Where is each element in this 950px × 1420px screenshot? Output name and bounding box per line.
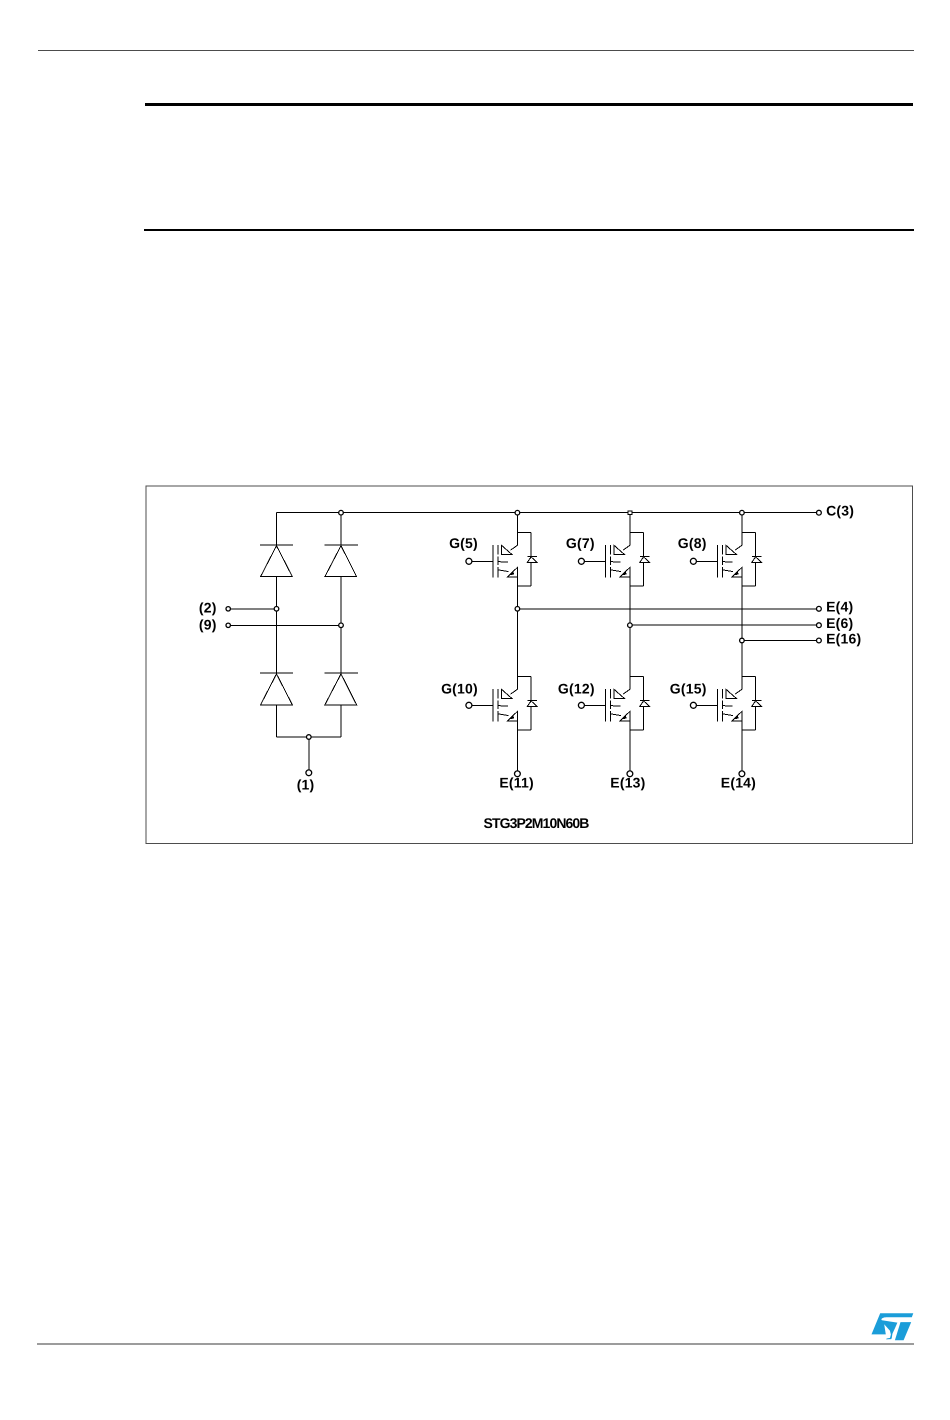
diode D1 (260, 545, 293, 577)
svg-text:E(6): E(6) (826, 615, 853, 631)
pin (9) terminal (226, 623, 230, 627)
wire: E(6) rail (630, 624, 817, 626)
svg-text:(2): (2) (199, 600, 217, 616)
wire: terminal 1 stub (308, 737, 310, 770)
node: rail junction at bridge (339, 510, 344, 515)
ST Microelectronics logo (871, 1313, 914, 1341)
IGBT Q5 with free-wheel diode (lower, G(12)) (578, 676, 649, 730)
wire: top rail C(3) (277, 512, 817, 514)
wire: column 1 emitter lead (516, 721, 518, 771)
footer rule (37, 1343, 914, 1345)
wire: column 1 mid vertical (516, 577, 518, 689)
node: bridge bottom junction (307, 735, 312, 740)
diode D3 (260, 673, 293, 705)
svg-text:E(14): E(14) (721, 775, 756, 791)
svg-text:E(4): E(4) (826, 599, 853, 615)
svg-text:E(11): E(11) (499, 775, 533, 791)
wire: bridge right branch (340, 513, 342, 737)
IGBT Q2 with free-wheel diode (upper, G(7)) (578, 532, 649, 586)
node: rail junction col1 (515, 510, 520, 515)
wire: column 2 emitter lead (629, 721, 631, 771)
svg-text:G(15): G(15) (670, 680, 707, 696)
pin E(11) terminal (515, 771, 521, 777)
wire: column 3 mid vertical (741, 577, 743, 689)
wire: collector drop column 3 (741, 513, 743, 546)
wire: column 3 emitter lead (741, 721, 743, 771)
svg-text:C(3): C(3) (826, 503, 854, 519)
svg-text:G(7): G(7) (566, 535, 595, 551)
node: rail junction col2 (628, 511, 632, 515)
svg-text:G(5): G(5) (449, 535, 478, 551)
pin (1) terminal (306, 770, 312, 776)
pin E(13) terminal (627, 771, 633, 777)
pin E(14) terminal (739, 771, 745, 777)
title bar top rule (145, 103, 913, 105)
node: E(4) junction (515, 607, 520, 612)
wire: E(16) rail (742, 640, 817, 642)
diode D2 (325, 545, 358, 577)
svg-text:E(13): E(13) (610, 775, 645, 791)
schematic figure: internal diagram (0, 0, 950, 900)
wire: bridge bottom join (277, 736, 342, 738)
diode D4 (325, 673, 358, 705)
svg-text:G(8): G(8) (678, 535, 707, 551)
wire: terminal 2 lead (231, 608, 277, 610)
node: rail junction col3 (740, 510, 745, 515)
pin E(16) terminal (817, 638, 822, 643)
pin C(3) terminal (817, 510, 822, 515)
wire: collector drop column 2 (629, 513, 631, 546)
node: E(16) junction (740, 638, 745, 643)
IGBT Q6 with free-wheel diode (lower, G(15)) (690, 676, 761, 730)
title bar bottom rule (144, 229, 914, 231)
pin (2) terminal (226, 607, 230, 611)
svg-text:(9): (9) (199, 616, 217, 632)
svg-text:STG3P2M10N60B: STG3P2M10N60B (484, 815, 590, 831)
wire: column 2 mid vertical (629, 577, 631, 689)
wire: collector drop column 1 (516, 513, 518, 546)
figure frame (146, 486, 912, 843)
svg-text:G(12): G(12) (558, 680, 595, 696)
wire: terminal 9 lead (231, 624, 342, 626)
wire: E(4) rail (517, 608, 816, 610)
wire: bridge left branch (276, 513, 278, 737)
node: terminal 9 junction (339, 623, 344, 628)
pin E(6) terminal (817, 623, 822, 628)
node: terminal 2 junction (274, 607, 279, 612)
IGBT Q3 with free-wheel diode (upper, G(8)) (690, 532, 761, 586)
svg-text:(1): (1) (297, 776, 315, 792)
header rule (38, 50, 914, 51)
node: E(6) junction (628, 623, 633, 628)
svg-text:G(10): G(10) (441, 680, 478, 696)
IGBT Q4 with free-wheel diode (lower, G(10)) (466, 676, 537, 730)
IGBT Q1 with free-wheel diode (upper, G(5)) (466, 532, 537, 586)
pin E(4) terminal (817, 606, 822, 611)
svg-text:E(16): E(16) (826, 630, 861, 646)
